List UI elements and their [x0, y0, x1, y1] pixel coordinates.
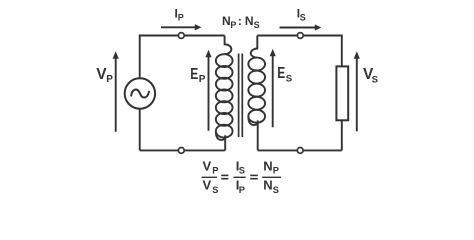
equation fraction V_P over V_S [202, 158, 219, 194]
node: primary bottom junction [178, 148, 184, 154]
wire: primary bottom (source to coil) [140, 149, 226, 151]
equals sign 2 [250, 175, 258, 178]
svg-text:P: P [239, 185, 245, 195]
transformer primary winding L1 (7 loops) [216, 54, 233, 137]
node: secondary top junction [297, 33, 303, 39]
wire: secondary top (coil to load) [257, 36, 342, 67]
label I_S [297, 7, 306, 23]
transformer secondary winding bottom hook [248, 116, 257, 150]
svg-text:N: N [245, 14, 254, 28]
svg-text:P: P [273, 166, 279, 176]
svg-text:N: N [263, 158, 272, 173]
equation fraction I_S over I_P [234, 158, 246, 194]
wire: secondary bottom (load to coil) [258, 149, 342, 151]
svg-text:S: S [239, 166, 245, 176]
label N_P : N_S [222, 14, 260, 30]
label I_P [175, 7, 184, 23]
label V_P [96, 66, 113, 85]
load resistor R (rectangle) [336, 66, 348, 120]
svg-text:P: P [106, 74, 113, 85]
label E_P [190, 66, 206, 85]
transformer core line right [241, 54, 243, 138]
svg-text:N: N [263, 177, 272, 192]
emf arrow E_S [270, 49, 276, 127]
transformer primary winding bottom hook [216, 131, 225, 150]
transformer primary winding top hook [225, 36, 232, 55]
svg-text:V: V [203, 158, 212, 173]
voltage arrow V_P [113, 51, 119, 131]
svg-text:S: S [254, 20, 260, 30]
svg-text:E: E [190, 66, 198, 83]
current arrow I_S [280, 24, 322, 30]
svg-text:E: E [277, 65, 285, 82]
label E_S [277, 65, 293, 84]
label V_S [363, 66, 379, 85]
transformer secondary winding top hook [251, 36, 258, 58]
wire: primary left upper (top wire to source) [139, 35, 141, 79]
emf arrow E_P [205, 50, 211, 131]
wire: primary top (source to coil) [140, 35, 225, 37]
svg-text:S: S [212, 185, 218, 195]
svg-text:P: P [199, 74, 206, 85]
AC source sine symbol [131, 90, 149, 98]
voltage arrow V_S [354, 51, 360, 131]
svg-text:V: V [203, 177, 212, 192]
transformer core line left [238, 54, 240, 138]
node: secondary bottom junction [297, 148, 303, 154]
svg-text:S: S [300, 13, 306, 23]
AC source V1 circle [125, 78, 155, 108]
svg-text:S: S [372, 74, 379, 85]
svg-text:P: P [230, 20, 236, 30]
svg-text:N: N [222, 14, 231, 28]
transformer secondary winding L2 (5 loops) [248, 58, 265, 123]
svg-text:S: S [273, 185, 279, 195]
svg-text:S: S [286, 73, 293, 84]
node: primary top junction [178, 33, 184, 39]
wire: primary left lower (source to bottom wire) [139, 109, 141, 151]
equation fraction N_P over N_S [262, 158, 281, 194]
svg-text:P: P [178, 13, 184, 23]
current arrow I_P [161, 24, 201, 30]
wire: secondary right lower (load to bottom wire) [341, 120, 343, 150]
svg-text::: : [238, 14, 242, 28]
svg-text:P: P [212, 166, 218, 176]
equals sign 1 [221, 175, 228, 178]
